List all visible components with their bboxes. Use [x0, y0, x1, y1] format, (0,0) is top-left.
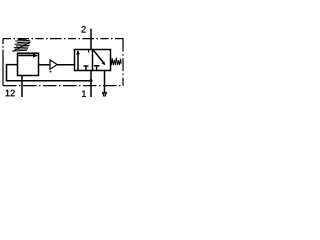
wire: amplifier to valve pilot: [57, 64, 74, 66]
valve left box flow arrow: [77, 54, 79, 71]
exhaust triangle: [102, 92, 107, 94]
amplifier triangle: [50, 60, 57, 69]
wire: regulator to amplifier: [39, 64, 51, 66]
valve right box blocked port T: [94, 66, 100, 71]
valve left box blocked port T: [84, 66, 89, 71]
valve V1 body (3/2 way): [75, 50, 111, 71]
enclosure dash-dot border: [3, 39, 124, 86]
adjustable spring (zigzag with arrow) on regulator: [12, 39, 30, 51]
wire: pilot sense loop from regulator left to port 1 line: [7, 65, 92, 81]
wire: port 12 line from regulator bottom: [21, 76, 23, 98]
amplifier vent dot: [50, 71, 52, 73]
valve box divider: [92, 50, 94, 71]
node junction on port 1 line: [90, 79, 93, 82]
valve return spring: [111, 58, 122, 66]
valve right box diagonal flow path: [93, 50, 103, 63]
spring-arrow head: [28, 42, 31, 45]
wire: exhaust port stub: [104, 71, 106, 93]
regulator internal arrow: [19, 54, 34, 56]
regulator R1 box: [18, 53, 39, 75]
label port 1: [82, 91, 86, 97]
wire: port 2 stub: [90, 29, 92, 50]
left box port stub: [88, 50, 90, 53]
label port 2: [81, 26, 85, 32]
label port 12: [6, 90, 15, 96]
wire: port 1 stub: [90, 71, 92, 98]
